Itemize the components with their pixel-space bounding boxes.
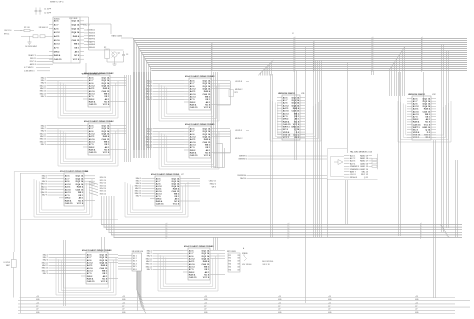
svg-text:A5 10: A5 10 xyxy=(89,138,96,141)
svg-text:RAS 4: RAS 4 xyxy=(65,199,72,202)
svg-text:S5 6: S5 6 xyxy=(133,269,137,271)
svg-text:A4 11: A4 11 xyxy=(54,35,60,38)
svg-text:4: 4 xyxy=(422,39,423,41)
svg-text:CAS 15: CAS 15 xyxy=(87,280,95,283)
svg-text:A6 13: A6 13 xyxy=(89,141,96,144)
bus ripper left fan xyxy=(133,38,151,150)
svg-text:A6 13: A6 13 xyxy=(413,113,420,116)
wire U1 top-right corner down xyxy=(80,17,89,50)
svg-text:4: 4 xyxy=(314,61,315,63)
net labels right of U3 xyxy=(217,81,249,105)
svg-text:A8 1: A8 1 xyxy=(105,98,110,101)
net labels left of DRAM U6 xyxy=(41,174,59,196)
svg-text:A5 10: A5 10 xyxy=(89,90,96,93)
svg-text:MA6 13: MA6 13 xyxy=(40,140,46,143)
svg-text:4164-15 64KX1 DRAM 150NS: 4164-15 64KX1 DRAM 150NS xyxy=(184,245,213,248)
svg-text:A4 11: A4 11 xyxy=(190,90,196,93)
svg-text:-12: -12 xyxy=(36,306,38,308)
svg-text:A4 11: A4 11 xyxy=(65,186,71,189)
svg-text:A7 9: A7 9 xyxy=(413,116,418,119)
svg-text:MA2 6: MA2 6 xyxy=(147,85,152,88)
svg-text:OE 1: OE 1 xyxy=(102,273,108,275)
svg-text:4164-15 64KX1 DRAM 150NS: 4164-15 64KX1 DRAM 150NS xyxy=(84,72,113,75)
svg-text:MA0 5: MA0 5 xyxy=(43,253,48,256)
svg-text:S0 1: S0 1 xyxy=(133,255,137,257)
svg-text:A2 6: A2 6 xyxy=(190,133,195,136)
svg-text:-12: -12 xyxy=(204,306,206,308)
svg-text:MA1 7: MA1 7 xyxy=(147,82,152,85)
svg-text:A2 6: A2 6 xyxy=(189,255,194,258)
svg-text:A0 5: A0 5 xyxy=(283,96,288,99)
svg-text:A4 11: A4 11 xyxy=(190,138,196,141)
svg-text:DIN 2: DIN 2 xyxy=(54,51,60,53)
svg-text:DQ3 14: DQ3 14 xyxy=(423,103,431,106)
svg-text:6: 6 xyxy=(295,49,296,51)
svg-text:A2 6: A2 6 xyxy=(89,130,94,133)
svg-text:A5 10: A5 10 xyxy=(54,39,61,42)
trunk x371 stub xyxy=(372,70,374,75)
svg-text:DIN 2: DIN 2 xyxy=(190,150,196,152)
svg-text:A8 1: A8 1 xyxy=(75,50,80,53)
svg-text:+12: +12 xyxy=(122,302,125,304)
svg-text:MA1 7: MA1 7 xyxy=(41,127,46,130)
svg-text:U12: U12 xyxy=(432,94,437,96)
svg-text:AEN1 3: AEN1 3 xyxy=(30,63,36,66)
svg-text:A2 6: A2 6 xyxy=(283,102,288,105)
svg-text:A0 5: A0 5 xyxy=(87,254,92,257)
svg-text:A2 6: A2 6 xyxy=(190,85,195,88)
svg-text:MA1 7: MA1 7 xyxy=(147,252,152,255)
bottom bus labels E xyxy=(328,296,332,314)
svg-text:CAS 15: CAS 15 xyxy=(76,188,84,191)
svg-text:DECOUPLING: DECOUPLING xyxy=(262,261,274,263)
svg-text:WE 3: WE 3 xyxy=(212,187,216,189)
svg-text:MA7 9: MA7 9 xyxy=(43,272,48,275)
svg-text:A5 10: A5 10 xyxy=(190,93,197,96)
svg-text:OE 1: OE 1 xyxy=(205,147,211,149)
wires right of DRAM U6 xyxy=(89,176,95,201)
svg-text:VCC 8: VCC 8 xyxy=(293,124,300,126)
svg-text:8: 8 xyxy=(373,59,374,61)
svg-text:R1: R1 xyxy=(229,255,231,257)
svg-text:1: 1 xyxy=(373,47,374,49)
svg-text:MA2 6: MA2 6 xyxy=(147,133,152,136)
svg-text:3: 3 xyxy=(212,65,213,67)
trunk x327 xyxy=(327,179,329,237)
svg-text:9: 9 xyxy=(422,49,423,51)
svg-text:8: 8 xyxy=(314,63,315,65)
svg-text:DACK0: DACK0 xyxy=(240,177,246,180)
svg-text:2: 2 xyxy=(314,47,315,49)
trunk from tap T1 xyxy=(212,72,218,168)
wires right of DRAM U5 xyxy=(216,129,230,153)
svg-text:DQ2 14: DQ2 14 xyxy=(102,79,110,82)
svg-text:A5 10: A5 10 xyxy=(87,267,94,270)
resistor pack RP2 xyxy=(227,247,245,272)
svg-text:OE 1: OE 1 xyxy=(205,99,211,101)
svg-text:CAS 15: CAS 15 xyxy=(203,141,211,144)
svg-text:33: 33 xyxy=(237,266,239,268)
svg-text:A6 13: A6 13 xyxy=(54,43,61,46)
svg-text:DQ1 14: DQ1 14 xyxy=(100,254,108,257)
svg-text:CAS 15: CAS 15 xyxy=(283,123,291,126)
svg-text:A7 9: A7 9 xyxy=(87,272,92,275)
svg-text:CLK 8: CLK 8 xyxy=(350,174,356,176)
svg-text:DQ2 14: DQ2 14 xyxy=(202,252,210,255)
oscillator circuit text labels xyxy=(50,2,64,4)
svg-text:A3 12: A3 12 xyxy=(87,262,94,265)
svg-text:DIN 2: DIN 2 xyxy=(190,102,196,104)
svg-text:MDIN0 2: MDIN0 2 xyxy=(235,89,242,91)
svg-text:DQ3 14: DQ3 14 xyxy=(76,180,84,183)
svg-text:RAS 4: RAS 4 xyxy=(283,120,290,123)
svg-text:WE 3: WE 3 xyxy=(78,192,84,194)
svg-text:RAS 4: RAS 4 xyxy=(77,186,84,189)
svg-text:DIN 2: DIN 2 xyxy=(189,272,195,274)
svg-text:4164-15 64KX1 DRAM 150NS: 4164-15 64KX1 DRAM 150NS xyxy=(185,75,214,78)
wires right of DRAM U4 xyxy=(115,126,126,150)
svg-text:DQ1 14: DQ1 14 xyxy=(423,97,431,100)
svg-text:U4: U4 xyxy=(111,121,114,123)
svg-text:5: 5 xyxy=(289,234,290,236)
svg-text:A1 7: A1 7 xyxy=(190,82,195,85)
svg-text:MA2 6: MA2 6 xyxy=(43,259,48,262)
mid bus left fan xyxy=(102,196,115,238)
svg-text:1: 1 xyxy=(314,67,315,69)
svg-text:R4: R4 xyxy=(229,264,231,266)
net labels left of U1 xyxy=(28,54,53,66)
svg-text:CAS 15: CAS 15 xyxy=(202,263,210,266)
svg-text:7: 7 xyxy=(373,57,374,59)
svg-text:RAS2 17: RAS2 17 xyxy=(360,160,369,163)
svg-text:MA2 6: MA2 6 xyxy=(41,130,46,133)
routing loops around U11 xyxy=(270,100,321,141)
svg-text:U7: U7 xyxy=(181,174,184,176)
ripper fan below U10 xyxy=(137,271,147,314)
svg-text:4164-15 64KX1 DRAM 150NS: 4164-15 64KX1 DRAM 150NS xyxy=(185,123,214,126)
svg-text:A5 10: A5 10 xyxy=(413,110,420,113)
routing loops around DRAM U8 xyxy=(56,258,116,295)
svg-text:+12: +12 xyxy=(328,302,331,304)
svg-text:5: 5 xyxy=(421,223,422,225)
svg-text:CLK GEN: CLK GEN xyxy=(69,18,78,20)
svg-text:RAS 4: RAS 4 xyxy=(87,278,94,281)
svg-text:DQ4 14: DQ4 14 xyxy=(203,88,211,91)
svg-text:RAS 4: RAS 4 xyxy=(190,104,197,107)
svg-text:VCC 8: VCC 8 xyxy=(204,155,211,157)
svg-text:4164-15 64KX1 DRAM 150NS: 4164-15 64KX1 DRAM 150NS xyxy=(84,120,113,123)
svg-text:RAS1 18: RAS1 18 xyxy=(360,157,369,160)
svg-text:9: 9 xyxy=(373,67,374,69)
svg-text:A3 12: A3 12 xyxy=(190,88,197,91)
svg-text:DIN 2: DIN 2 xyxy=(283,119,289,121)
net labels right of U5 xyxy=(213,130,249,153)
svg-text:CAS 15: CAS 15 xyxy=(292,110,300,113)
svg-text:A6 13: A6 13 xyxy=(89,93,96,96)
svg-text:DQ2 14: DQ2 14 xyxy=(100,256,108,259)
svg-text:1: 1 xyxy=(295,55,296,57)
svg-text:J2: J2 xyxy=(292,33,294,35)
svg-text:DQ4 14: DQ4 14 xyxy=(72,31,80,34)
svg-text:A6 13: A6 13 xyxy=(189,266,196,269)
ground symbol near Y1 xyxy=(28,36,32,44)
svg-text:DQ3 14: DQ3 14 xyxy=(102,82,110,85)
svg-text:TANT: TANT xyxy=(6,264,10,267)
svg-text:A7 9: A7 9 xyxy=(65,194,70,197)
svg-text:CAS2 15: CAS2 15 xyxy=(209,180,216,183)
svg-text:DQ4 14: DQ4 14 xyxy=(203,136,211,139)
svg-text:9: 9 xyxy=(422,63,423,65)
svg-text:33: 33 xyxy=(237,264,239,266)
svg-text:A0 5: A0 5 xyxy=(89,77,94,80)
svg-text:6: 6 xyxy=(373,61,374,63)
capacitor C4 bottom left xyxy=(3,252,16,298)
svg-text:CAS 15: CAS 15 xyxy=(190,154,198,157)
svg-text:33: 33 xyxy=(237,255,239,257)
svg-text:MA3 12: MA3 12 xyxy=(146,257,152,260)
mid bus ticks B xyxy=(288,223,290,239)
routing loop around U13 xyxy=(328,149,378,180)
svg-text:RDY1 4: RDY1 4 xyxy=(30,61,36,63)
bottom bus labels A xyxy=(36,296,40,314)
svg-text:WE 3: WE 3 xyxy=(294,113,300,115)
svg-text:MA4 11: MA4 11 xyxy=(42,264,48,267)
net labels left of DRAM U9 xyxy=(146,249,183,271)
svg-text:CAS 15: CAS 15 xyxy=(423,110,431,113)
svg-text:+12: +12 xyxy=(204,302,207,304)
svg-text:MA3 12: MA3 12 xyxy=(40,132,46,135)
svg-text:9: 9 xyxy=(295,65,296,67)
net labels right of U6 xyxy=(100,177,106,195)
svg-text:MA1 7: MA1 7 xyxy=(147,130,152,133)
svg-text:MA6 13: MA6 13 xyxy=(40,92,46,95)
svg-text:4.77 MHZ 6: 4.77 MHZ 6 xyxy=(24,67,33,69)
svg-text:CAS1 15: CAS1 15 xyxy=(360,165,369,168)
svg-text:8: 8 xyxy=(314,45,315,47)
svg-text:5: 5 xyxy=(167,228,168,230)
capacitor C2 xyxy=(39,8,52,15)
divider line inside U1 xyxy=(70,17,72,63)
svg-text:RAS 4: RAS 4 xyxy=(204,90,211,93)
svg-text:A0 5: A0 5 xyxy=(413,97,418,100)
svg-text:U8: U8 xyxy=(109,250,112,252)
svg-text:VCC 8: VCC 8 xyxy=(173,203,180,205)
trunk x440 xyxy=(442,44,444,232)
svg-text:MA7 9: MA7 9 xyxy=(136,195,141,198)
svg-text:DQ2 14: DQ2 14 xyxy=(292,99,300,102)
svg-text:A8 1: A8 1 xyxy=(105,146,110,149)
svg-text:A16 1: A16 1 xyxy=(350,154,356,157)
svg-text:A3 12: A3 12 xyxy=(65,183,72,186)
svg-text:A1 7: A1 7 xyxy=(89,79,94,82)
svg-text:XMEMR 1: XMEMR 1 xyxy=(239,156,247,158)
trunk x63 xyxy=(64,240,66,306)
svg-text:A8 1: A8 1 xyxy=(103,275,108,278)
svg-text:A2 6: A2 6 xyxy=(89,82,94,85)
svg-text:RAS 4: RAS 4 xyxy=(190,152,197,155)
svg-text:U10 74LS00: U10 74LS00 xyxy=(242,264,251,266)
svg-text:READY 5: READY 5 xyxy=(28,54,36,57)
svg-text:A4 11: A4 11 xyxy=(189,260,195,263)
svg-text:14.31818 MHZ: 14.31818 MHZ xyxy=(25,46,38,48)
bottom bus labels B xyxy=(122,296,126,314)
svg-text:PAL16R4 MEMDEC U13: PAL16R4 MEMDEC U13 xyxy=(350,151,373,154)
svg-text:9: 9 xyxy=(373,37,374,39)
resistor R1 xyxy=(20,27,34,32)
svg-text:4: 4 xyxy=(422,51,423,53)
svg-text:DQ1 14: DQ1 14 xyxy=(102,125,110,128)
svg-text:CAS 15: CAS 15 xyxy=(190,106,198,109)
svg-text:8284A: 8284A xyxy=(54,18,60,21)
ROM U12 xyxy=(407,94,437,140)
svg-text:VCC 8: VCC 8 xyxy=(101,281,108,283)
svg-text:A6 13: A6 13 xyxy=(87,270,94,273)
svg-text:A1 7: A1 7 xyxy=(89,127,94,130)
svg-text:A1 7: A1 7 xyxy=(65,177,70,180)
svg-text:RAS 4: RAS 4 xyxy=(103,87,110,90)
svg-text:RAS 4: RAS 4 xyxy=(101,264,108,267)
svg-text:VCC 8: VCC 8 xyxy=(204,107,211,109)
svg-text:6: 6 xyxy=(314,51,315,53)
svg-text:R6: R6 xyxy=(229,269,231,271)
wires right of U7 labels xyxy=(214,144,225,168)
svg-text:9: 9 xyxy=(314,69,315,71)
svg-text:DQ1 14: DQ1 14 xyxy=(202,250,210,253)
svg-text:4: 4 xyxy=(314,49,315,51)
svg-text:9: 9 xyxy=(295,53,296,55)
svg-text:6: 6 xyxy=(167,223,168,225)
svg-text:9: 9 xyxy=(289,231,290,233)
svg-text:MD4 14: MD4 14 xyxy=(100,188,106,190)
svg-text:A2 6: A2 6 xyxy=(54,27,59,30)
svg-text:R2: R2 xyxy=(104,47,106,49)
routing loops around DRAM U2 xyxy=(58,81,118,118)
svg-text:WE 3: WE 3 xyxy=(74,44,80,46)
svg-text:5: 5 xyxy=(373,63,374,65)
diagonal wires right of U6 xyxy=(89,182,98,196)
routing loops around DRAM U9 xyxy=(158,254,218,291)
svg-text:RAS 4: RAS 4 xyxy=(293,107,300,110)
svg-text:5: 5 xyxy=(289,236,290,238)
svg-text:MA4 11: MA4 11 xyxy=(146,138,152,141)
svg-text:A3 12: A3 12 xyxy=(54,31,61,34)
svg-text:-12: -12 xyxy=(278,306,280,308)
svg-text:MA0 5: MA0 5 xyxy=(147,79,152,82)
svg-text:-12: -12 xyxy=(328,306,330,308)
svg-text:0: 0 xyxy=(295,61,296,63)
bus ripper elbows at x261 xyxy=(259,60,274,76)
svg-text:RAS 4: RAS 4 xyxy=(89,149,96,152)
svg-text:A6 13: A6 13 xyxy=(65,191,72,194)
svg-text:8: 8 xyxy=(295,47,296,49)
svg-text:MA0 5: MA0 5 xyxy=(147,249,152,252)
svg-text:2: 2 xyxy=(422,43,423,45)
svg-text:6: 6 xyxy=(212,47,213,49)
svg-text:DQ3 14: DQ3 14 xyxy=(72,27,80,30)
trunk into U13 top xyxy=(347,62,349,153)
svg-text:OE 1: OE 1 xyxy=(74,48,80,50)
net labels left of DRAM U5 xyxy=(146,127,184,149)
svg-text:MA2 6: MA2 6 xyxy=(41,82,46,85)
svg-text:A5 10: A5 10 xyxy=(189,263,196,266)
svg-text:DIN 2: DIN 2 xyxy=(65,198,71,200)
svg-text:0: 0 xyxy=(212,61,213,63)
wire into bus top line xyxy=(121,37,133,39)
net labels left of DRAM U2 xyxy=(40,76,83,98)
svg-text:A1 7: A1 7 xyxy=(283,99,288,102)
svg-text:9: 9 xyxy=(421,226,422,228)
svg-text:CAS 15: CAS 15 xyxy=(189,276,197,279)
svg-text:MD2 14: MD2 14 xyxy=(100,183,106,185)
svg-text:DQ4 14: DQ4 14 xyxy=(102,133,110,136)
buffer U10 xyxy=(118,251,143,271)
wires right of DRAM U7 xyxy=(185,179,200,202)
svg-text:RAS 4: RAS 4 xyxy=(54,54,61,57)
bus tap column T1 xyxy=(212,43,214,72)
svg-text:DQ1 14: DQ1 14 xyxy=(72,20,80,23)
mid bus ticks C xyxy=(421,223,423,239)
svg-text:4164-15 64KX1 DRAM 150NS: 4164-15 64KX1 DRAM 150NS xyxy=(82,249,111,252)
svg-text:+12: +12 xyxy=(278,302,281,304)
svg-text:C3: C3 xyxy=(126,54,128,56)
svg-text:RP1: RP1 xyxy=(235,92,238,94)
svg-text:DQ1 14: DQ1 14 xyxy=(203,128,211,131)
svg-text:8: 8 xyxy=(212,63,213,65)
trunk mid bus to U9 loops xyxy=(214,237,218,250)
svg-text:MA1 7: MA1 7 xyxy=(43,256,48,259)
trunk x433 xyxy=(434,140,436,298)
svg-text:Q 14: Q 14 xyxy=(425,128,431,131)
svg-text:0: 0 xyxy=(314,43,315,45)
svg-text:MD3 14: MD3 14 xyxy=(100,185,106,187)
bottom bus labels D xyxy=(278,296,282,314)
svg-text:CAS 15: CAS 15 xyxy=(100,267,108,270)
svg-text:VCC 8: VCC 8 xyxy=(103,152,110,154)
svg-text:A8 1: A8 1 xyxy=(205,271,210,274)
net labels left of DRAM U7 xyxy=(135,177,150,198)
svg-text:RAS2 4: RAS2 4 xyxy=(210,183,216,186)
svg-text:A7 9: A7 9 xyxy=(54,47,59,50)
svg-text:9: 9 xyxy=(373,53,374,55)
DRAM U9 xyxy=(183,245,215,280)
svg-text:+12: +12 xyxy=(415,302,418,304)
svg-text:CAS 15: CAS 15 xyxy=(413,123,421,126)
net labels left edge lower xyxy=(237,175,327,180)
svg-text:3: 3 xyxy=(373,55,374,57)
svg-text:MA4 11: MA4 11 xyxy=(40,87,46,90)
svg-text:CAS 15: CAS 15 xyxy=(102,90,110,93)
timing generator U1 xyxy=(49,17,84,63)
outer routing loop row3 xyxy=(14,172,118,253)
routing loops around DRAM U4 xyxy=(58,129,118,166)
svg-text:7: 7 xyxy=(167,234,168,236)
svg-text:7: 7 xyxy=(422,55,423,57)
svg-text:R3: R3 xyxy=(229,261,231,263)
svg-text:S1 2: S1 2 xyxy=(133,258,137,260)
svg-text:CAS2 14: CAS2 14 xyxy=(360,168,369,171)
svg-text:5: 5 xyxy=(422,37,423,39)
svg-text:R2: R2 xyxy=(229,258,231,260)
svg-text:8: 8 xyxy=(289,228,290,230)
svg-text:9: 9 xyxy=(421,231,422,233)
svg-text:DQ2 14: DQ2 14 xyxy=(423,100,431,103)
svg-text:CAS 15: CAS 15 xyxy=(72,39,80,42)
svg-text:DQ1 14: DQ1 14 xyxy=(76,175,84,178)
svg-text:A19 4: A19 4 xyxy=(350,162,356,165)
svg-text:Q 14: Q 14 xyxy=(294,128,300,131)
svg-text:A0 5: A0 5 xyxy=(189,250,194,253)
svg-text:7: 7 xyxy=(421,234,422,236)
